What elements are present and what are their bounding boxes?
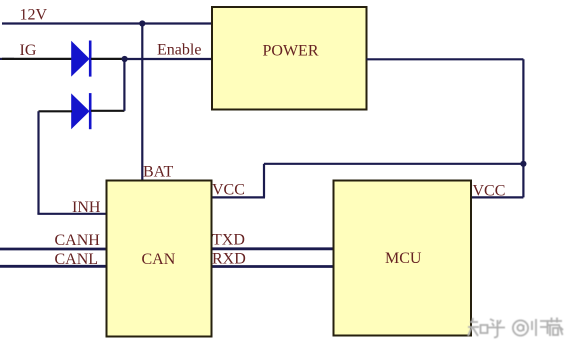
wire CANL: [0, 265, 107, 268]
wire Enable to POWER: [125, 58, 212, 60]
node junction VCC: [520, 161, 526, 167]
char cang: [547, 318, 563, 337]
wire INH vertical: [37, 111, 39, 214]
diode D2: [71, 93, 90, 129]
char gui: [532, 319, 548, 336]
wire POWER output: [367, 58, 524, 60]
node junction on 12V rail: [139, 20, 145, 26]
wire VCC into MCU: [471, 196, 523, 198]
svg-text:CANH: CANH: [55, 232, 101, 249]
char zhi: [468, 318, 479, 336]
svg-text:IG: IG: [20, 42, 37, 59]
svg-text:VCC: VCC: [473, 182, 506, 199]
svg-text:CANL: CANL: [55, 251, 99, 268]
at sign: [513, 320, 528, 335]
char hu: [488, 319, 505, 338]
svg-text:TXD: TXD: [212, 231, 245, 248]
wire D1 cathode to Enable junction: [91, 58, 125, 60]
wire D2 cathode horizontal: [91, 110, 124, 112]
node junction Enable: [122, 56, 128, 62]
wire TXD: [212, 247, 334, 250]
svg-text:Enable: Enable: [157, 42, 201, 59]
diode D1: [71, 41, 90, 77]
wire VCC into CAN: [212, 196, 266, 198]
watermark zhihu: [468, 318, 563, 338]
svg-text:BAT: BAT: [143, 164, 173, 181]
wire D2 cathode vertical up to Enable junction: [123, 59, 125, 111]
svg-text:MCU: MCU: [385, 250, 422, 267]
block CAN: [107, 181, 212, 337]
svg-text:VCC: VCC: [212, 181, 245, 198]
svg-text:INH: INH: [72, 199, 101, 216]
wire RXD: [212, 265, 334, 268]
wire D2 anode from INH branch: [39, 110, 73, 112]
svg-text:RXD: RXD: [212, 250, 246, 267]
svg-text:CAN: CAN: [142, 251, 176, 268]
wire IG input to diode D1 anode: [0, 58, 14, 60]
svg-text:12V: 12V: [20, 7, 48, 24]
block POWER: [212, 7, 367, 110]
wire VCC vertical right: [522, 59, 524, 197]
wire BAT vertical from 12V junction to CAN top: [141, 24, 143, 181]
wire CANH: [0, 248, 107, 251]
wire 12V rail: [2, 22, 212, 24]
wire VCC drop to CAN: [263, 164, 265, 198]
wire INH horizontal into CAN: [37, 213, 107, 215]
svg-text:POWER: POWER: [263, 43, 319, 60]
wire VCC top horizontal: [264, 163, 523, 165]
block MCU: [334, 181, 472, 336]
